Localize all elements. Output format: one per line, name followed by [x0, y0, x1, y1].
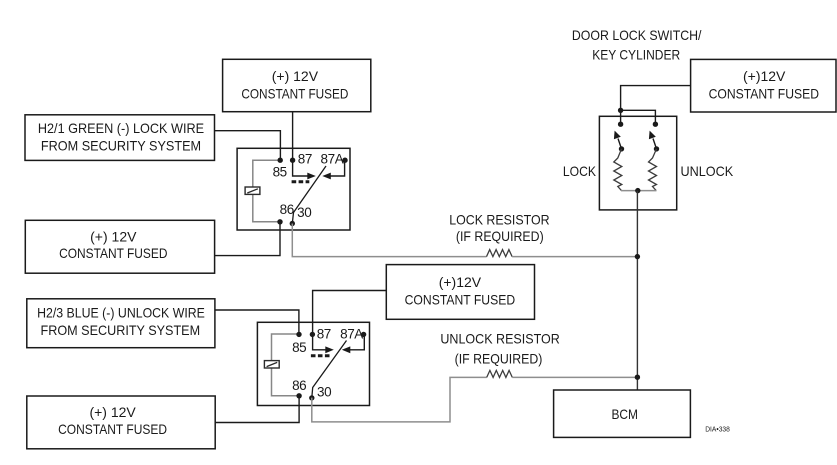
svg-text:30: 30: [317, 384, 331, 399]
relay K1 wire 87A to NO contact arrow: [322, 160, 344, 179]
switch SW1 unlock contact dot: [653, 122, 658, 127]
svg-text:H2/1 GREEN (-) LOCK WIRE: H2/1 GREEN (-) LOCK WIRE: [38, 120, 204, 136]
relay K1 pin 85 dot: [278, 158, 283, 163]
wire: switch common down to BCM: [636, 191, 638, 390]
svg-text:(+)12V: (+)12V: [439, 274, 482, 290]
junction dot: switch feed split: [618, 108, 623, 113]
junction dot: switch common output: [635, 188, 640, 193]
wire: lock relay pin 30 to lock resistor (gray): [292, 224, 486, 257]
relay K1 pin 87 dot: [290, 158, 295, 163]
relay K2 pin 87A dot: [361, 332, 366, 337]
svg-text:DIA•338: DIA•338: [705, 425, 730, 434]
relay K2 wire 87 to NC contact arrow: [313, 334, 334, 353]
relay K2 pin 85 dot: [296, 332, 301, 337]
svg-text:CONSTANT FUSED: CONSTANT FUSED: [58, 421, 167, 437]
label: LOCK RESISTOR (IF REQUIRED): [449, 211, 549, 244]
svg-text:85: 85: [292, 340, 306, 355]
svg-text:(+) 12V: (+) 12V: [272, 68, 319, 84]
svg-text:(IF REQUIRED): (IF REQUIRED): [455, 351, 543, 367]
wire: unlock relay pin 30 to unlock resistor (gray): [312, 377, 487, 422]
svg-text:(+) 12V: (+) 12V: [89, 404, 136, 420]
box B1: (+) 12V CONSTANT FUSED (top, feeds lock relay 87): [223, 59, 371, 111]
relay K2 pin 30 dot: [309, 395, 314, 400]
relay K2 coil symbol: [264, 361, 279, 368]
svg-text:H2/3 BLUE (-) UNLOCK WIRE: H2/3 BLUE (-) UNLOCK WIRE: [37, 305, 205, 321]
svg-text:FROM SECURITY SYSTEM: FROM SECURITY SYSTEM: [41, 322, 201, 338]
wire: unlock resistor to junction on BCM line (gray): [512, 376, 637, 378]
wire: feed split to unlock contact: [621, 110, 656, 124]
box B3: (+) 12V CONSTANT FUSED (left middle, feeds lock relay 86): [25, 220, 214, 273]
wire: H2/1 box to lock relay pin 85: [215, 131, 281, 161]
wire: lock resistor to junction on BCM line (gray): [512, 256, 638, 258]
relay K1 wire 87 to NC contact arrow: [293, 160, 316, 179]
svg-text:CONSTANT FUSED: CONSTANT FUSED: [709, 85, 819, 101]
wire: feed split to lock contact: [620, 110, 622, 124]
box B4: (+)12V CONSTANT FUSED (middle, feeds unlock relay 87): [386, 265, 534, 320]
relay K1 coil actuation dashed link: [292, 180, 310, 183]
svg-text:87A: 87A: [340, 327, 363, 342]
svg-text:KEY CYLINDER: KEY CYLINDER: [592, 47, 680, 63]
svg-text:DOOR LOCK SWITCH/: DOOR LOCK SWITCH/: [572, 27, 702, 43]
relay K2: unlock relay outline: [257, 322, 369, 405]
svg-text:BCM: BCM: [611, 406, 638, 422]
relay K1: lock relay outline: [237, 148, 350, 230]
wire: H2/3 box to unlock relay pin 85: [215, 310, 299, 334]
relay K1 coil loop wire (85 to 86): [253, 160, 280, 222]
resistor: unlock resistor zigzag: [487, 370, 513, 377]
svg-text:87A: 87A: [321, 151, 344, 166]
svg-text:85: 85: [273, 164, 287, 179]
switch SW1 lock arm with arrow: [614, 131, 624, 152]
wire: switch common bottom bar (gray): [621, 190, 657, 192]
box B6: (+) 12V CONSTANT FUSED (bottom left, feeds unlock relay 86): [27, 396, 215, 449]
junction dot: unlock resistor line joins BCM line: [635, 375, 640, 380]
resistor: lock side vertical zigzag: [614, 149, 622, 191]
relay K2 pin 86 dot: [296, 393, 301, 398]
svg-text:FROM SECURITY SYSTEM: FROM SECURITY SYSTEM: [41, 137, 201, 153]
svg-text:UNLOCK RESISTOR: UNLOCK RESISTOR: [440, 331, 559, 347]
wire: middle 12V box to unlock relay pin 87: [313, 291, 387, 335]
relay K1 pin 86 dot: [277, 219, 282, 224]
box B7: (+)12V CONSTANT FUSED (top right, feeds door lock switch): [691, 59, 836, 112]
svg-text:87: 87: [298, 152, 312, 167]
relay K2 wire 87A to NO contact arrow: [342, 334, 365, 353]
svg-text:CONSTANT FUSED: CONSTANT FUSED: [59, 245, 167, 261]
relay K1 coil symbol: [245, 187, 260, 194]
junction dot: lock resistor line joins BCM line: [635, 254, 640, 259]
label: DOOR LOCK SWITCH / KEY CYLINDER title: [572, 27, 702, 63]
box B2: H2/1 GREEN lock wire from security system: [25, 115, 215, 161]
wire: top right 12V box to door lock switch common: [621, 86, 691, 111]
label: UNLOCK RESISTOR (IF REQUIRED): [440, 331, 559, 367]
svg-text:86: 86: [280, 202, 294, 217]
resistor: unlock side vertical zigzag: [649, 149, 657, 191]
svg-text:86: 86: [292, 378, 306, 393]
resistor: lock resistor zigzag: [487, 250, 513, 257]
relay K2 pin 87 dot: [310, 332, 315, 337]
svg-text:LOCK RESISTOR: LOCK RESISTOR: [449, 211, 549, 227]
svg-text:(IF REQUIRED): (IF REQUIRED): [456, 228, 544, 244]
svg-text:(+)12V: (+)12V: [743, 68, 786, 84]
svg-text:CONSTANT FUSED: CONSTANT FUSED: [241, 85, 348, 101]
svg-text:CONSTANT FUSED: CONSTANT FUSED: [405, 292, 516, 308]
svg-text:30: 30: [297, 205, 311, 220]
wire: top 12V box to lock relay pin 87: [292, 112, 294, 161]
box B8: BCM: [554, 390, 691, 437]
svg-text:87: 87: [317, 327, 331, 342]
wire: lock relay pin 86 down to left 12V box: [214, 222, 280, 256]
relay K1 pin 87A dot: [342, 158, 347, 163]
box B5: H2/3 BLUE unlock wire from security system: [27, 299, 215, 348]
switch SW1 unlock arm with arrow: [649, 131, 659, 152]
relay K2 coil actuation dashed link: [311, 354, 330, 357]
switch SW1 lock contact dot: [618, 122, 623, 127]
svg-text:LOCK: LOCK: [563, 163, 597, 179]
relay K2 switch blade from pin 30: [312, 341, 347, 398]
svg-text:(+) 12V: (+) 12V: [90, 228, 137, 244]
relay K1 switch blade from pin 30: [292, 166, 326, 224]
relay K2 coil loop wire (85 to 86): [272, 334, 300, 396]
svg-text:UNLOCK: UNLOCK: [681, 163, 734, 179]
wire: unlock relay pin 86 down to bottom left 12V box: [215, 396, 299, 423]
relay K1 pin 30 dot: [290, 221, 295, 226]
switch SW1: door lock switch box outline: [599, 116, 676, 210]
